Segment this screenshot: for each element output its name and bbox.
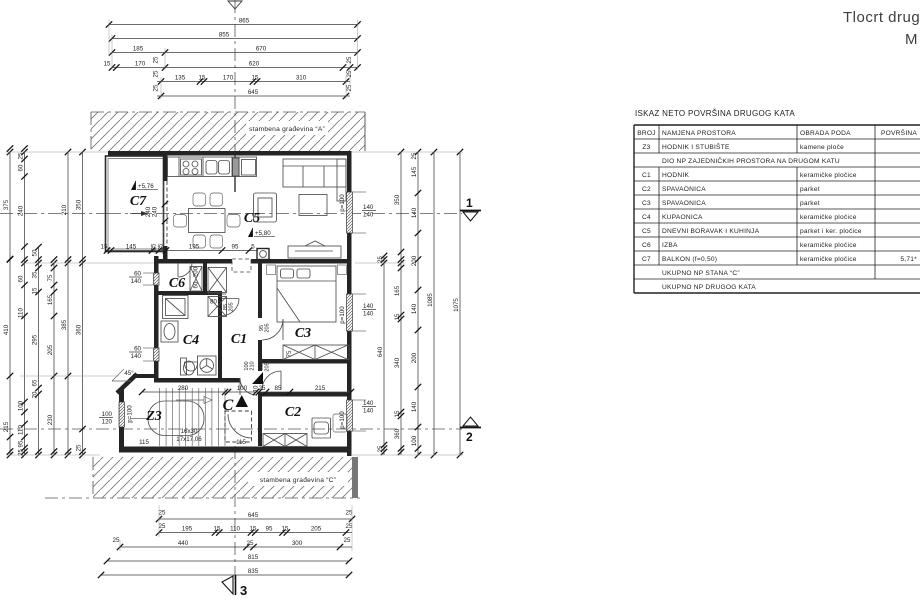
- svg-text:25: 25: [377, 256, 384, 263]
- section marker 1: [460, 196, 481, 221]
- svg-text:140: 140: [363, 311, 374, 318]
- entry dashed void: [225, 411, 252, 442]
- svg-text:C4: C4: [183, 333, 199, 348]
- level mark +5,76: [131, 181, 158, 190]
- svg-text:25: 25: [153, 70, 160, 77]
- svg-text:C2: C2: [285, 405, 301, 420]
- svg-text:5,71*: 5,71*: [900, 256, 917, 263]
- svg-text:360: 360: [75, 324, 82, 335]
- svg-text:620: 620: [249, 60, 260, 67]
- svg-text:75: 75: [286, 350, 293, 357]
- exterior wall west of stairwell: [119, 388, 124, 452]
- fridge: [242, 160, 256, 176]
- svg-text:140: 140: [411, 303, 418, 314]
- wall C2 north: [262, 392, 351, 397]
- svg-text:p=100: p=100: [339, 194, 346, 212]
- bottom dim 195..205: [156, 525, 352, 535]
- top dim 865: [106, 17, 361, 27]
- top glyph (cut): [228, 1, 242, 9]
- svg-text:25: 25: [346, 70, 353, 77]
- right chain 1085: [427, 149, 437, 458]
- east wall window gaps: [346, 192, 353, 233]
- svg-text:UKUPNO NP STANA “C”: UKUPNO NP STANA “C”: [662, 270, 740, 277]
- svg-text:15: 15: [250, 525, 257, 532]
- exterior wall west below balcony: [154, 256, 159, 381]
- shower: [163, 296, 189, 319]
- kitchen counter: [168, 157, 257, 177]
- wardrobe C2: [263, 434, 307, 447]
- svg-text:185: 185: [133, 45, 144, 52]
- svg-text:KUPAONICA: KUPAONICA: [662, 214, 703, 221]
- svg-text:65: 65: [31, 379, 38, 386]
- top dim 855: [109, 31, 361, 41]
- wall C1/C3 upper: [258, 263, 262, 318]
- window C5 east 140: [347, 192, 353, 233]
- svg-text:140: 140: [363, 400, 374, 407]
- bottom dim 835: [98, 568, 352, 578]
- svg-text:25: 25: [411, 152, 418, 159]
- svg-text:5: 5: [251, 243, 255, 250]
- svg-text:stambena građevina “A”: stambena građevina “A”: [249, 126, 325, 133]
- washing machine: [198, 356, 217, 375]
- svg-text:M 1:100: M 1:100: [905, 31, 920, 48]
- svg-text:440: 440: [178, 540, 189, 547]
- svg-text:230: 230: [47, 414, 54, 425]
- wall stub below C3: [258, 363, 262, 371]
- svg-text:195: 195: [182, 525, 193, 532]
- svg-text:140: 140: [363, 303, 374, 310]
- svg-text:50: 50: [31, 249, 38, 256]
- toilet: [181, 358, 198, 375]
- svg-text:195: 195: [189, 243, 200, 250]
- svg-text:100: 100: [102, 411, 113, 418]
- C6 shelf: [190, 267, 202, 292]
- svg-text:SPAVAONICA: SPAVAONICA: [662, 186, 706, 193]
- top extension lines: [109, 20, 358, 99]
- window C3 east 140: [347, 294, 353, 331]
- right chain windows: [411, 149, 421, 458]
- stove 4 burners: [181, 159, 202, 175]
- svg-text:BROJ: BROJ: [637, 130, 656, 137]
- svg-text:60: 60: [17, 275, 24, 282]
- wall C5 south east part: [251, 259, 347, 264]
- svg-text:3: 3: [240, 583, 247, 598]
- svg-text:2: 2: [466, 430, 473, 444]
- svg-text:670: 670: [256, 45, 267, 52]
- marker 3: [222, 575, 247, 598]
- svg-text:205: 205: [265, 323, 271, 332]
- svg-text:835: 835: [248, 568, 259, 575]
- desk C2: [312, 418, 331, 438]
- arc in void: [228, 414, 252, 438]
- left chain 6: [75, 149, 85, 458]
- svg-text:1075: 1075: [453, 298, 460, 312]
- stair handrail loop: [148, 401, 204, 436]
- svg-text:15: 15: [214, 525, 221, 532]
- svg-text:25: 25: [346, 84, 353, 91]
- bottom dim 440+25+300: [117, 540, 352, 550]
- svg-text:100: 100: [411, 435, 418, 446]
- svg-text:keramičke pločice: keramičke pločice: [800, 172, 857, 179]
- svg-text:110: 110: [230, 525, 240, 532]
- svg-text:keramičke pločice: keramičke pločice: [800, 256, 857, 263]
- wall C4/C1: [218, 295, 222, 382]
- neighbour building A hatched band: [91, 112, 365, 151]
- svg-text:140: 140: [131, 278, 142, 285]
- svg-text:25: 25: [159, 523, 166, 530]
- svg-text:640: 640: [377, 346, 384, 357]
- svg-text:210: 210: [61, 204, 68, 215]
- bottom extension lines: [120, 505, 352, 551]
- svg-text:C3: C3: [642, 200, 651, 207]
- svg-text:C7: C7: [642, 256, 651, 263]
- entry arrow marker: [252, 372, 263, 384]
- svg-text:NAMJENA PROSTORA: NAMJENA PROSTORA: [662, 130, 736, 137]
- svg-text:645: 645: [248, 512, 259, 519]
- svg-text:60: 60: [134, 346, 141, 353]
- svg-text:p=100: p=100: [339, 411, 346, 429]
- level mark +5,80: [248, 228, 275, 237]
- svg-text:295: 295: [31, 334, 38, 345]
- right extension lines: [352, 152, 463, 455]
- section line 1-1: [0, 213, 108, 215]
- svg-text:140: 140: [363, 408, 374, 415]
- svg-text:C1: C1: [231, 332, 247, 347]
- svg-text:UKUPNO NP DRUGOG KATA: UKUPNO NP DRUGOG KATA: [662, 284, 756, 291]
- svg-text:25: 25: [247, 540, 254, 547]
- top dim 135..310: [157, 74, 350, 84]
- svg-text:210: 210: [250, 361, 256, 370]
- dim below C7: [101, 243, 258, 253]
- svg-text:205: 205: [47, 344, 54, 355]
- svg-text:205: 205: [265, 362, 271, 371]
- svg-text:350: 350: [75, 199, 82, 210]
- bottom dim 645: [156, 512, 355, 522]
- svg-text:215: 215: [3, 421, 10, 432]
- stair direction arrow: [130, 397, 212, 419]
- svg-text:140: 140: [363, 212, 374, 219]
- svg-text:25: 25: [259, 385, 266, 392]
- svg-text:25: 25: [377, 445, 384, 452]
- svg-text:645: 645: [248, 89, 259, 96]
- svg-text:ISKAZ NETO POVRŠINA DRUGOG KAT: ISKAZ NETO POVRŠINA DRUGOG KATA: [635, 109, 795, 118]
- opening C5-C1 dashed: [232, 259, 251, 272]
- bottom dim 815: [104, 554, 352, 564]
- svg-text:310: 310: [296, 74, 307, 81]
- dining table: [189, 209, 226, 233]
- svg-text:120: 120: [102, 419, 113, 426]
- wall C2 west: [258, 392, 262, 446]
- svg-text:110: 110: [17, 425, 24, 435]
- svg-text:p=100: p=100: [339, 306, 346, 324]
- svg-text:parket i ker. pločice: parket i ker. pločice: [800, 228, 862, 235]
- svg-text:360: 360: [394, 428, 401, 439]
- svg-text:15: 15: [394, 313, 401, 320]
- svg-text:1: 1: [466, 196, 473, 210]
- svg-text:300: 300: [292, 540, 303, 547]
- svg-text:15: 15: [282, 525, 289, 532]
- svg-text:25: 25: [159, 510, 166, 517]
- svg-text:85: 85: [275, 385, 282, 392]
- svg-text:C5: C5: [642, 228, 651, 235]
- stair treads: [160, 388, 226, 446]
- svg-text:25: 25: [153, 84, 160, 91]
- svg-text:C5: C5: [244, 211, 260, 226]
- left chain 3: [31, 244, 41, 458]
- doubled ticks: [7, 145, 421, 454]
- right chain 1: [377, 253, 387, 455]
- svg-text:205: 205: [229, 302, 235, 311]
- svg-text:10: 10: [253, 385, 260, 392]
- svg-text:200: 200: [193, 266, 200, 277]
- svg-text:p=100: p=100: [127, 405, 134, 423]
- svg-text:140: 140: [363, 204, 374, 211]
- svg-text:815: 815: [248, 554, 259, 561]
- svg-text:15: 15: [31, 287, 38, 294]
- neighbour building C hatched band: [45, 457, 360, 498]
- balcony C7 walls: [106, 156, 164, 252]
- vertical centreline: [234, 0, 236, 151]
- svg-text:165: 165: [47, 294, 54, 305]
- svg-text:280: 280: [178, 385, 189, 392]
- wall C4 south / stair hall north: [154, 378, 240, 383]
- svg-text:215: 215: [315, 385, 326, 392]
- svg-text:OBRADA PODA: OBRADA PODA: [800, 130, 851, 137]
- flue shaft: [233, 158, 240, 176]
- svg-text:240: 240: [17, 205, 24, 216]
- svg-text:25: 25: [346, 56, 353, 63]
- svg-text:kamene ploče: kamene ploče: [800, 144, 844, 151]
- svg-text:75: 75: [47, 274, 54, 281]
- svg-text:100: 100: [237, 385, 248, 392]
- svg-text:Z3: Z3: [145, 409, 162, 424]
- svg-text:95: 95: [232, 243, 239, 250]
- chairs: [174, 193, 241, 248]
- top dim 185+670: [109, 45, 361, 55]
- svg-text:145: 145: [411, 166, 418, 177]
- svg-text:keramičke pločice: keramičke pločice: [800, 214, 857, 221]
- svg-text:HODNIK I STUBIŠTE: HODNIK I STUBIŠTE: [662, 142, 730, 151]
- svg-text:95: 95: [266, 525, 273, 532]
- svg-text:25: 25: [344, 537, 351, 544]
- door C1 to C3: [262, 319, 283, 340]
- exterior wall east: [347, 151, 352, 456]
- svg-text:IZBA: IZBA: [662, 242, 678, 249]
- svg-text:POVRŠINA: POVRŠINA: [881, 128, 917, 137]
- door C1 to stair hall: [240, 378, 257, 395]
- svg-text:parket: parket: [800, 186, 820, 193]
- svg-text:25: 25: [17, 152, 24, 159]
- svg-text:60: 60: [193, 281, 200, 288]
- svg-text:keramičke pločice: keramičke pločice: [800, 242, 857, 249]
- right chain 2: [394, 149, 404, 455]
- washbasin: [161, 321, 178, 342]
- area table: [634, 109, 920, 293]
- svg-text:C7: C7: [130, 194, 147, 209]
- wall C3 south: [258, 359, 351, 364]
- svg-text:DNEVNI BORAVAK I KUHINJA: DNEVNI BORAVAK I KUHINJA: [662, 228, 760, 235]
- left chain 2: [17, 149, 27, 458]
- svg-text:15: 15: [101, 243, 108, 250]
- svg-text:C2: C2: [642, 186, 651, 193]
- svg-text:340: 340: [394, 357, 401, 368]
- svg-text:60: 60: [134, 271, 141, 278]
- svg-text:1085: 1085: [427, 293, 434, 307]
- svg-text:25: 25: [113, 537, 120, 544]
- svg-text:Tlocrt drugog kata: Tlocrt drugog kata: [843, 9, 920, 26]
- svg-text:95: 95: [17, 440, 24, 447]
- svg-text:15: 15: [199, 74, 206, 81]
- shaft box with fan: [257, 249, 269, 260]
- svg-text:170: 170: [223, 74, 234, 81]
- wall C7/C5 upper: [163, 155, 168, 181]
- window sills west: [143, 273, 154, 361]
- wall C6/C1: [203, 263, 207, 295]
- balcony door (dashed): [164, 181, 168, 246]
- wall jog above stair: [133, 374, 158, 378]
- tv bench: [288, 241, 341, 258]
- svg-text:110: 110: [17, 308, 24, 318]
- svg-text:375: 375: [3, 199, 10, 210]
- svg-text:115: 115: [139, 439, 149, 446]
- left chain 5: [61, 149, 71, 458]
- svg-text:C6: C6: [642, 242, 651, 249]
- svg-text:C1: C1: [642, 172, 651, 179]
- svg-text:25: 25: [153, 56, 160, 63]
- door C5 to C6: [178, 263, 192, 277]
- svg-text:HODNIK: HODNIK: [662, 172, 689, 179]
- C1 wardrobe upper: [208, 268, 227, 293]
- svg-text:BALKON (f=0,50): BALKON (f=0,50): [662, 256, 717, 263]
- svg-text:15: 15: [104, 60, 111, 67]
- left chain total: [3, 149, 13, 458]
- svg-text:25: 25: [75, 444, 82, 451]
- svg-text:140: 140: [411, 401, 418, 412]
- coffee table: [299, 195, 327, 216]
- svg-text:17x17,06: 17x17,06: [176, 436, 202, 443]
- wall C6/C4: [158, 291, 222, 295]
- corner sofa: [283, 159, 346, 201]
- C1 wardrobe lower: [208, 297, 227, 317]
- svg-text:20: 20: [31, 391, 38, 398]
- nightstands: [267, 265, 347, 275]
- svg-text:410: 410: [3, 324, 10, 335]
- svg-text:240: 240: [152, 206, 159, 217]
- svg-text:855: 855: [219, 31, 230, 38]
- svg-text:60: 60: [17, 164, 24, 171]
- bed C3: [277, 266, 336, 322]
- svg-text:140: 140: [131, 353, 142, 360]
- svg-text:Z3: Z3: [642, 144, 650, 151]
- dim through stair hall: [139, 385, 354, 395]
- svg-text:C4: C4: [642, 214, 651, 221]
- left extension lines: [6, 152, 154, 455]
- armchair: [254, 193, 277, 222]
- wall C5 south west part: [158, 259, 232, 264]
- svg-text:80: 80: [210, 299, 217, 306]
- wall C7/C5 lower: [163, 246, 168, 263]
- window C4 west 60: [154, 348, 160, 361]
- window sills east: [352, 192, 366, 431]
- svg-text:stambena građevina “C”: stambena građevina “C”: [260, 477, 336, 484]
- window C6 west 60: [154, 273, 160, 285]
- svg-text:DIO NP ZAJEDNIČKIH PROSTORA NA: DIO NP ZAJEDNIČKIH PROSTORA NA DRUGOM KA…: [662, 156, 840, 165]
- svg-text:115: 115: [236, 439, 246, 446]
- exterior wall south: [119, 447, 352, 453]
- door hall to C2: [262, 371, 281, 390]
- svg-text:15: 15: [394, 410, 401, 417]
- svg-text:SPAVAONICA: SPAVAONICA: [662, 200, 706, 207]
- section marker 2: [460, 417, 481, 444]
- door C1 to C4: [222, 299, 239, 316]
- window stairwell 100/120: [119, 402, 125, 427]
- svg-text:865: 865: [239, 17, 250, 24]
- svg-text:100: 100: [17, 400, 24, 411]
- svg-text:25: 25: [151, 243, 158, 250]
- svg-text:135: 135: [175, 74, 186, 81]
- section line 2-2: [0, 428, 462, 430]
- svg-text:35: 35: [31, 271, 38, 278]
- double sink: [206, 161, 230, 175]
- svg-text:C: C: [223, 397, 234, 414]
- left chain 4: [47, 260, 57, 458]
- exterior wall north: [108, 151, 351, 156]
- svg-text:25: 25: [158, 243, 165, 250]
- svg-text:16x30: 16x30: [181, 428, 198, 435]
- window C2 east 140: [347, 400, 353, 431]
- svg-text:200: 200: [411, 352, 418, 363]
- svg-text:350: 350: [394, 194, 401, 205]
- svg-text:C3: C3: [295, 326, 311, 341]
- top dim 645: [157, 89, 350, 99]
- svg-text:C6: C6: [169, 276, 185, 291]
- bed C2 partial: [333, 414, 347, 432]
- wall C1/C3 lower: [258, 340, 262, 363]
- svg-text:205: 205: [311, 525, 322, 532]
- top dim 15+170+620: [104, 60, 361, 70]
- svg-text:385: 385: [61, 319, 68, 330]
- right chain total 1075: [453, 149, 463, 458]
- svg-text:140: 140: [411, 207, 418, 218]
- wardrobe C3: [283, 345, 349, 360]
- svg-text:170: 170: [135, 60, 146, 67]
- svg-text:parket: parket: [800, 200, 820, 207]
- svg-text:145: 145: [126, 243, 137, 250]
- svg-text:45°: 45°: [124, 370, 134, 377]
- svg-text:15: 15: [252, 74, 259, 81]
- chamfered corner 45: [117, 374, 137, 393]
- svg-text:165: 165: [394, 285, 401, 296]
